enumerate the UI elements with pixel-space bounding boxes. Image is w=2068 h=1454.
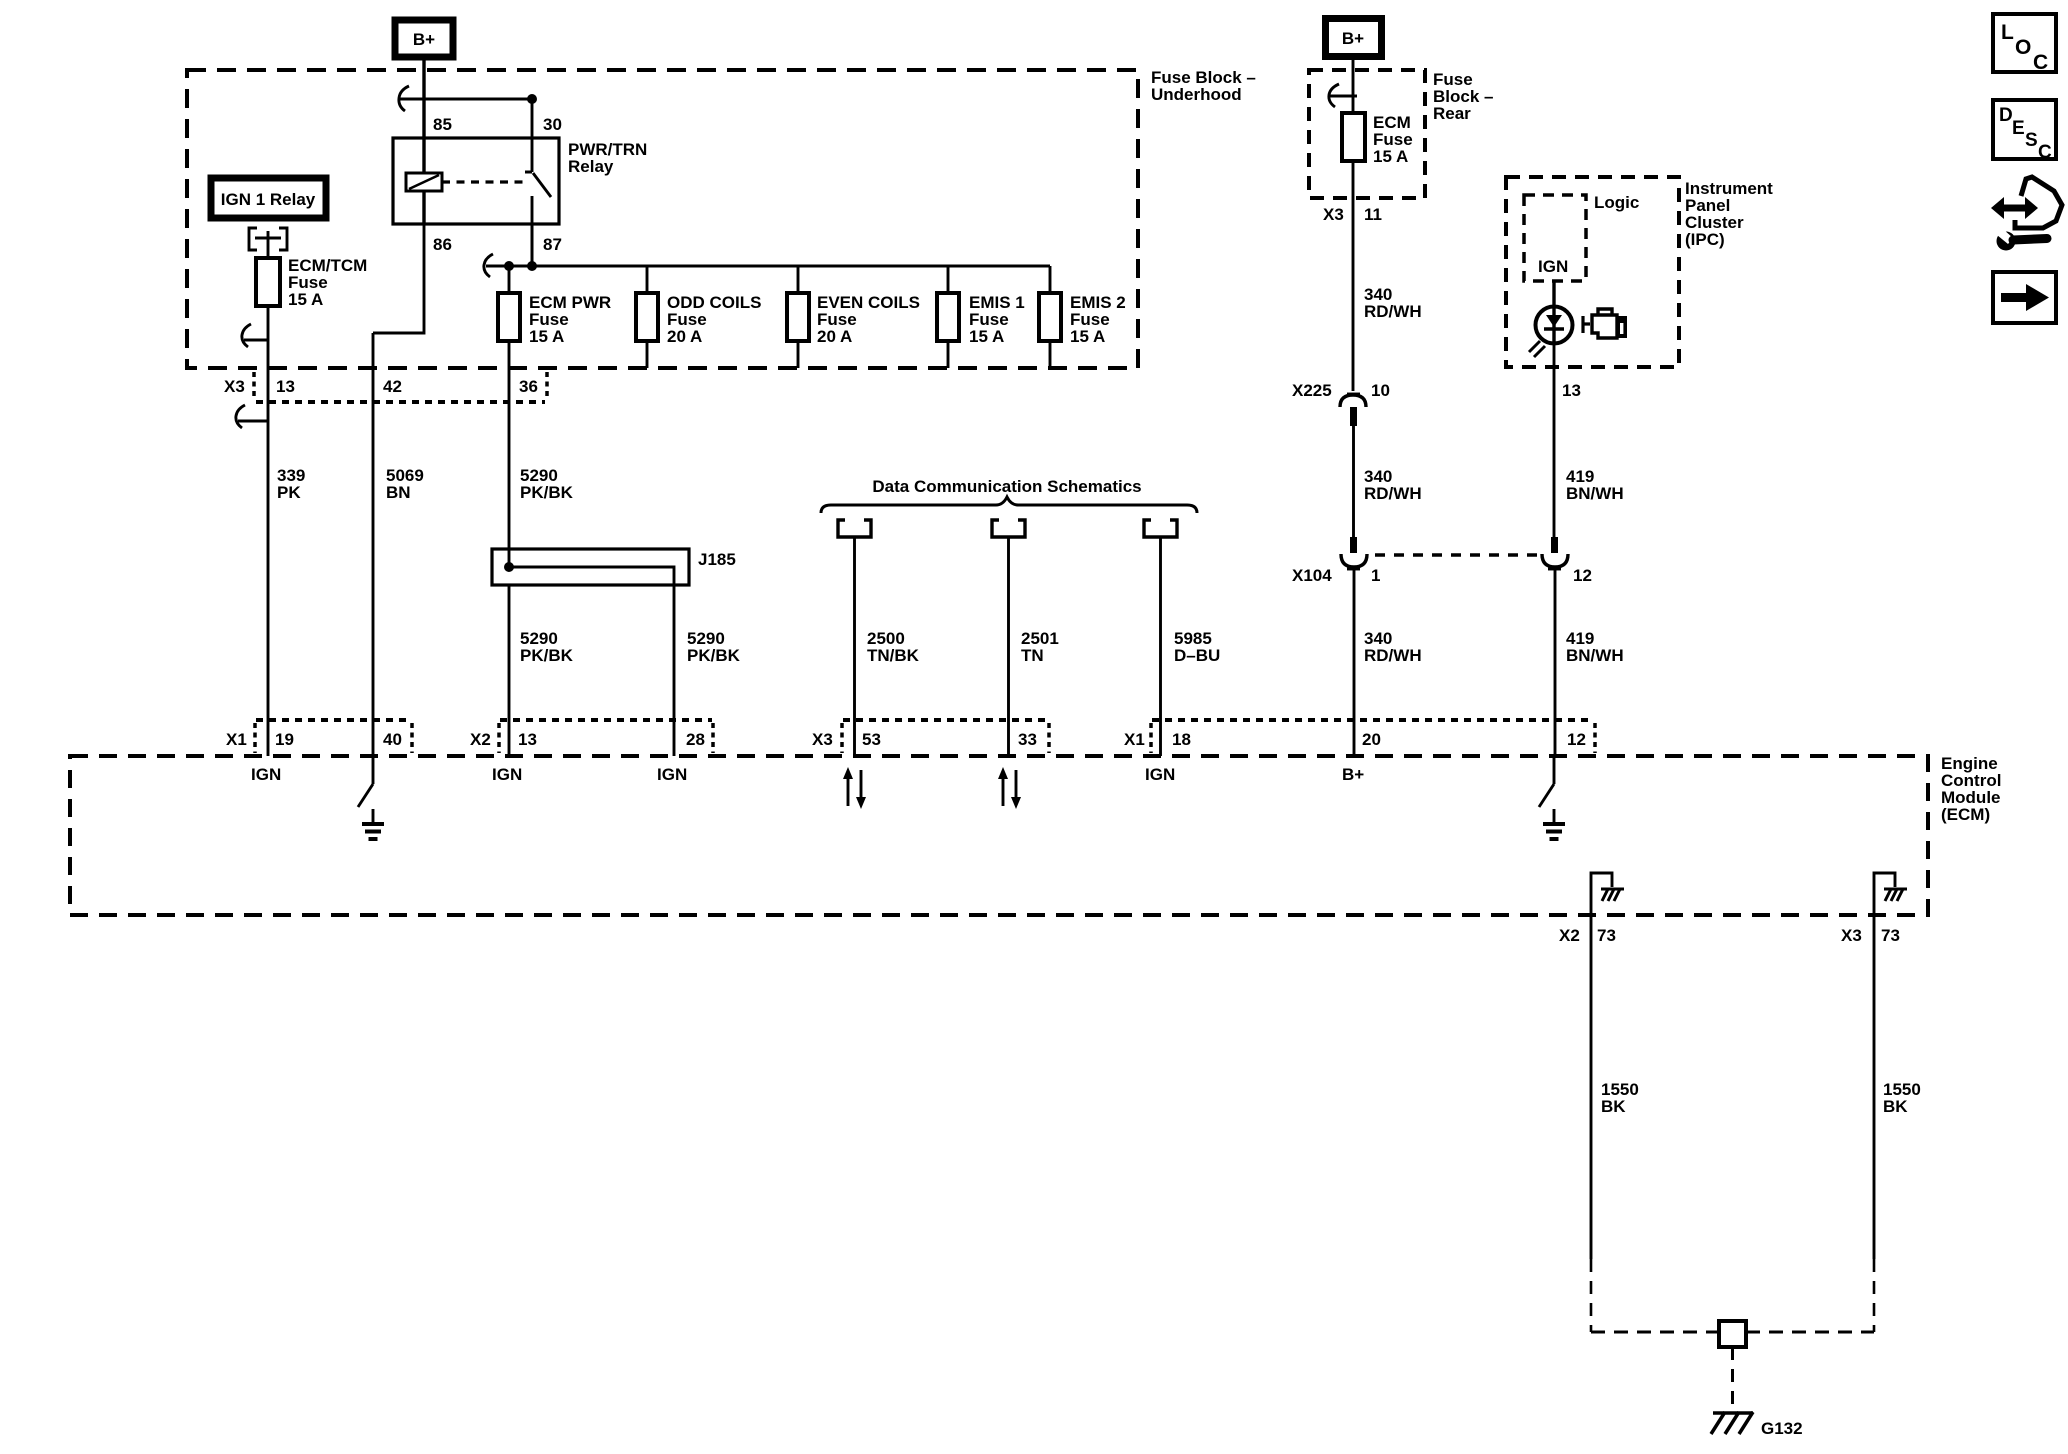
- terminal clip below X3-13 connector: [236, 405, 268, 428]
- connector X1 row (pins 19,40): [226, 720, 412, 753]
- inline connector X104 pin 1: [1292, 554, 1380, 585]
- wire 2501 TN label: [1021, 629, 1059, 665]
- svg-text:G132: G132: [1761, 1419, 1803, 1438]
- fuse ODD COILS 20A: [636, 266, 761, 368]
- svg-text:13: 13: [276, 377, 295, 396]
- svg-text:X3: X3: [1323, 205, 1344, 224]
- Engine Control Module (ECM) dashed enclosure: [70, 754, 2001, 915]
- wire 5290 PK/BK splice to ECM pin 13: [508, 585, 511, 756]
- indicator lamp (MIL): [1529, 307, 1573, 358]
- switch to ground inside ECM (pin 12): [1539, 756, 1554, 807]
- svg-text:13: 13: [518, 730, 537, 749]
- svg-text:E: E: [2012, 118, 2025, 139]
- svg-text:PK: PK: [277, 483, 301, 502]
- logic block in IPC: [1524, 193, 1639, 281]
- wire 5985 D-BU: [1159, 537, 1162, 756]
- svg-text:RD/WH: RD/WH: [1364, 302, 1422, 321]
- svg-text:10: 10: [1371, 381, 1390, 400]
- svg-text:TN/BK: TN/BK: [867, 646, 920, 665]
- svg-text:30: 30: [543, 115, 562, 134]
- fuse ECM 15A (rear): [1342, 113, 1413, 166]
- wire 339 PK label: [277, 466, 305, 502]
- svg-text:20 A: 20 A: [667, 327, 702, 346]
- svg-text:85: 85: [433, 115, 452, 134]
- junction dot bus / ECM PWR fuse: [504, 261, 514, 271]
- wire 340 RD/WH label (lower): [1364, 629, 1422, 665]
- LOC reference icon: [1993, 14, 2056, 74]
- svg-text:BN/WH: BN/WH: [1566, 484, 1624, 503]
- wire 2501 TN: [1007, 537, 1010, 756]
- connector X3 row (pins 53,33): [812, 720, 1049, 753]
- svg-text:20: 20: [1362, 730, 1381, 749]
- Fuse Block - Underhood (dashed enclosure): [187, 68, 1256, 368]
- svg-text:D: D: [1999, 105, 2013, 126]
- svg-text:IGN: IGN: [492, 765, 522, 784]
- relay PWR/TRN outline: [393, 138, 647, 224]
- wire 2500 TN/BK label: [867, 629, 920, 665]
- junction dot bus / pin 87: [527, 261, 537, 271]
- svg-text:42: 42: [383, 377, 402, 396]
- svg-text:PK/BK: PK/BK: [520, 483, 574, 502]
- relay switch contact: [525, 138, 551, 266]
- svg-text:X104: X104: [1292, 566, 1332, 585]
- svg-text:18: 18: [1172, 730, 1191, 749]
- svg-text:X1: X1: [1124, 730, 1145, 749]
- terminal clip at bus left end: [484, 254, 493, 277]
- svg-text:Underhood: Underhood: [1151, 85, 1242, 104]
- switch to ground inside ECM (pin 40): [358, 756, 373, 807]
- wire 2500 TN/BK: [853, 537, 856, 756]
- svg-text:D–BU: D–BU: [1174, 646, 1220, 665]
- wire 1550 BK (right): [1873, 915, 1876, 1259]
- svg-text:15 A: 15 A: [529, 327, 564, 346]
- svg-text:12: 12: [1573, 566, 1592, 585]
- connector X2 pin 73 labels: [1559, 926, 1616, 945]
- connector X104 harness dashed link: [1375, 553, 1537, 557]
- wire 1550 BK (left): [1590, 915, 1593, 1259]
- relay coil-to-contact dashed link: [442, 180, 525, 183]
- data arrows at pin 33: [998, 767, 1021, 809]
- wire 339 inside fuse block: [267, 258, 270, 340]
- wire 5290 PK/BK fuse to splice J185: [508, 368, 511, 567]
- connector X3 pin 73 labels: [1841, 926, 1900, 945]
- terminal clip in rear fuse block: [1329, 84, 1357, 107]
- wire 5290 PK/BK label (left branch): [520, 629, 574, 665]
- svg-text:Relay: Relay: [568, 157, 614, 176]
- wire logic to indicator lamp: [1552, 281, 1555, 308]
- svg-text:40: 40: [383, 730, 402, 749]
- connector X2 row (pins 13,28): [470, 720, 713, 753]
- brace for data communication group: [821, 497, 1197, 513]
- splice pack J185: [492, 549, 736, 585]
- svg-text:BN/WH: BN/WH: [1566, 646, 1624, 665]
- svg-text:IGN: IGN: [657, 765, 687, 784]
- svg-text:PK/BK: PK/BK: [687, 646, 741, 665]
- next-page arrow icon: [1993, 272, 2056, 323]
- wire 1550 BK label (left): [1601, 1080, 1639, 1116]
- svg-text:RD/WH: RD/WH: [1364, 646, 1422, 665]
- wire 419 BN/WH label (upper): [1566, 467, 1624, 503]
- svg-text:IGN: IGN: [1145, 765, 1175, 784]
- svg-text:BK: BK: [1601, 1097, 1626, 1116]
- svg-text:B+: B+: [1342, 29, 1364, 48]
- wire relay 87 to fuse bus: [531, 224, 534, 266]
- svg-text:33: 33: [1018, 730, 1037, 749]
- svg-text:PK/BK: PK/BK: [520, 646, 574, 665]
- terminal clip below ECM/TCM fuse: [242, 324, 268, 347]
- svg-text:13: 13: [1562, 381, 1581, 400]
- svg-text:1: 1: [1371, 566, 1380, 585]
- svg-text:11: 11: [1364, 205, 1382, 224]
- svg-text:J185: J185: [698, 550, 736, 569]
- svg-text:28: 28: [686, 730, 705, 749]
- fuse ECM PWR 15A: [498, 266, 611, 368]
- wire 5985 D-BU label: [1174, 629, 1220, 665]
- ground symbol (pin 12): [1543, 809, 1565, 839]
- wire 5069 BN label: [386, 466, 424, 502]
- junction dot pin30 branch: [527, 94, 537, 104]
- svg-text:X2: X2: [470, 730, 491, 749]
- wire 419 BN/WH X104 to ECM pin 12: [1554, 567, 1557, 756]
- wire B+ rear feed: [1352, 60, 1355, 113]
- battery terminal B+ (underhood): [395, 20, 453, 57]
- svg-text:B+: B+: [1342, 765, 1364, 784]
- battery terminal B+ (rear): [1326, 19, 1382, 57]
- svg-text:L: L: [2001, 21, 2014, 44]
- svg-text:IGN: IGN: [1538, 257, 1568, 276]
- svg-text:Logic: Logic: [1594, 193, 1639, 212]
- off-page connector (serial data 5985): [1144, 520, 1177, 537]
- svg-text:X225: X225: [1292, 381, 1332, 400]
- svg-text:X1: X1: [226, 730, 247, 749]
- svg-text:RD/WH: RD/WH: [1364, 484, 1422, 503]
- svg-text:87: 87: [543, 235, 562, 254]
- svg-text:X3: X3: [224, 377, 245, 396]
- svg-text:X3: X3: [1841, 926, 1862, 945]
- svg-text:15 A: 15 A: [1373, 147, 1408, 166]
- engine pictogram (check engine): [1583, 309, 1627, 338]
- wire 5290 PK/BK label: [520, 466, 574, 502]
- svg-text:BK: BK: [1883, 1097, 1908, 1116]
- wire 5290 PK/BK splice to ECM pin 28: [673, 585, 676, 756]
- svg-text:Data Communication Schematics: Data Communication Schematics: [872, 477, 1141, 496]
- inline connector X225 pin 10: [1292, 381, 1390, 426]
- inline connector X104 pin 12: [1542, 537, 1592, 585]
- wire 1550 BK label (right): [1883, 1080, 1921, 1116]
- svg-text:Rear: Rear: [1433, 104, 1471, 123]
- Fuse Block - Rear dashed enclosure: [1309, 70, 1493, 198]
- svg-text:15 A: 15 A: [288, 290, 323, 309]
- wire 5290 PK/BK label (right branch): [687, 629, 741, 665]
- svg-text:73: 73: [1597, 926, 1616, 945]
- svg-text:O: O: [2015, 36, 2031, 59]
- wire 340 RD/WH fuse to X225: [1352, 161, 1355, 391]
- off-page connector (CAN bus 2501): [992, 520, 1025, 537]
- svg-text:(ECM): (ECM): [1941, 805, 1990, 824]
- off-page connector (CAN bus 2500): [838, 520, 871, 537]
- svg-text:IGN: IGN: [251, 765, 281, 784]
- wire 5069 BN to ECM pin 40: [372, 333, 375, 756]
- chassis-ground pigtail X3-73 inside ECM: [1874, 873, 1907, 915]
- fuse EVEN COILS 20A: [787, 266, 920, 368]
- svg-text:15 A: 15 A: [1070, 327, 1105, 346]
- svg-text:BN: BN: [386, 483, 411, 502]
- fuse EMIS 2 15A: [1039, 266, 1126, 368]
- svg-text:20 A: 20 A: [817, 327, 852, 346]
- fuse EMIS 1 15A: [937, 266, 1025, 368]
- svg-text:IGN 1 Relay: IGN 1 Relay: [221, 190, 316, 209]
- connector X3 row under fuse block: [224, 372, 547, 402]
- wire 419 BN/WH lamp to IPC pin 13: [1553, 343, 1556, 391]
- svg-text:C: C: [2033, 51, 2048, 74]
- fuse holder terminal brackets for ECM/TCM fuse: [249, 228, 287, 258]
- svg-text:86: 86: [433, 235, 452, 254]
- connector X3 pin 11 labels (rear fuse block): [1323, 205, 1382, 224]
- wire 340 RD/WH label (middle): [1364, 467, 1422, 503]
- svg-text:12: 12: [1567, 730, 1586, 749]
- svg-text:X3: X3: [812, 730, 833, 749]
- wire 419 BN/WH to X104 pin 12: [1553, 391, 1556, 537]
- relay IGN 1 label box: [211, 178, 326, 218]
- fuse ECM/TCM 15A: [256, 256, 367, 309]
- svg-text:15 A: 15 A: [969, 327, 1004, 346]
- wire 340 RD/WH X225 to X104: [1352, 426, 1355, 537]
- fuse bus wire: [486, 265, 1050, 268]
- svg-text:53: 53: [862, 730, 881, 749]
- svg-text:73: 73: [1881, 926, 1900, 945]
- ground G132: [1711, 1412, 1803, 1438]
- svg-text:B+: B+: [413, 30, 435, 49]
- chassis-ground pigtail X2-73 inside ECM: [1591, 873, 1624, 915]
- svg-text:TN: TN: [1021, 646, 1044, 665]
- wire B+ feed to relay pin 85: [422, 60, 425, 138]
- svg-text:19: 19: [275, 730, 294, 749]
- wire 340 RD/WH label (upper): [1364, 285, 1422, 321]
- svg-text:36: 36: [519, 377, 538, 396]
- ground symbol (pin 40): [362, 809, 384, 839]
- svg-text:X2: X2: [1559, 926, 1580, 945]
- svg-text:S: S: [2025, 130, 2038, 151]
- wire 419 BN/WH label (lower): [1566, 629, 1624, 665]
- Instrument Panel Cluster (IPC) dashed enclosure: [1506, 177, 1773, 367]
- data arrows at pin 53: [843, 767, 866, 809]
- relay coil: [406, 138, 442, 224]
- dashed ground bus to splice: [1591, 1331, 1719, 1334]
- wire branch B+ to relay pin 30: [398, 99, 532, 138]
- ground splice block: [1719, 1321, 1746, 1347]
- svg-text:C: C: [2038, 142, 2052, 163]
- connector X1 row (pins 18,20,12): [1124, 720, 1595, 753]
- dashed lead to G132: [1731, 1347, 1734, 1409]
- svg-text:(IPC): (IPC): [1685, 230, 1725, 249]
- diagnostic reference icon (arrows and wrench): [1991, 177, 2062, 251]
- wire 339 PK to ECM pin 19: [267, 340, 270, 756]
- terminal clip at branch to pin 30: [399, 86, 409, 111]
- wire 86 jog segment: [373, 224, 424, 333]
- wire 340 RD/WH X104 to ECM pin 20: [1353, 567, 1356, 756]
- DESC reference icon: [1993, 100, 2056, 163]
